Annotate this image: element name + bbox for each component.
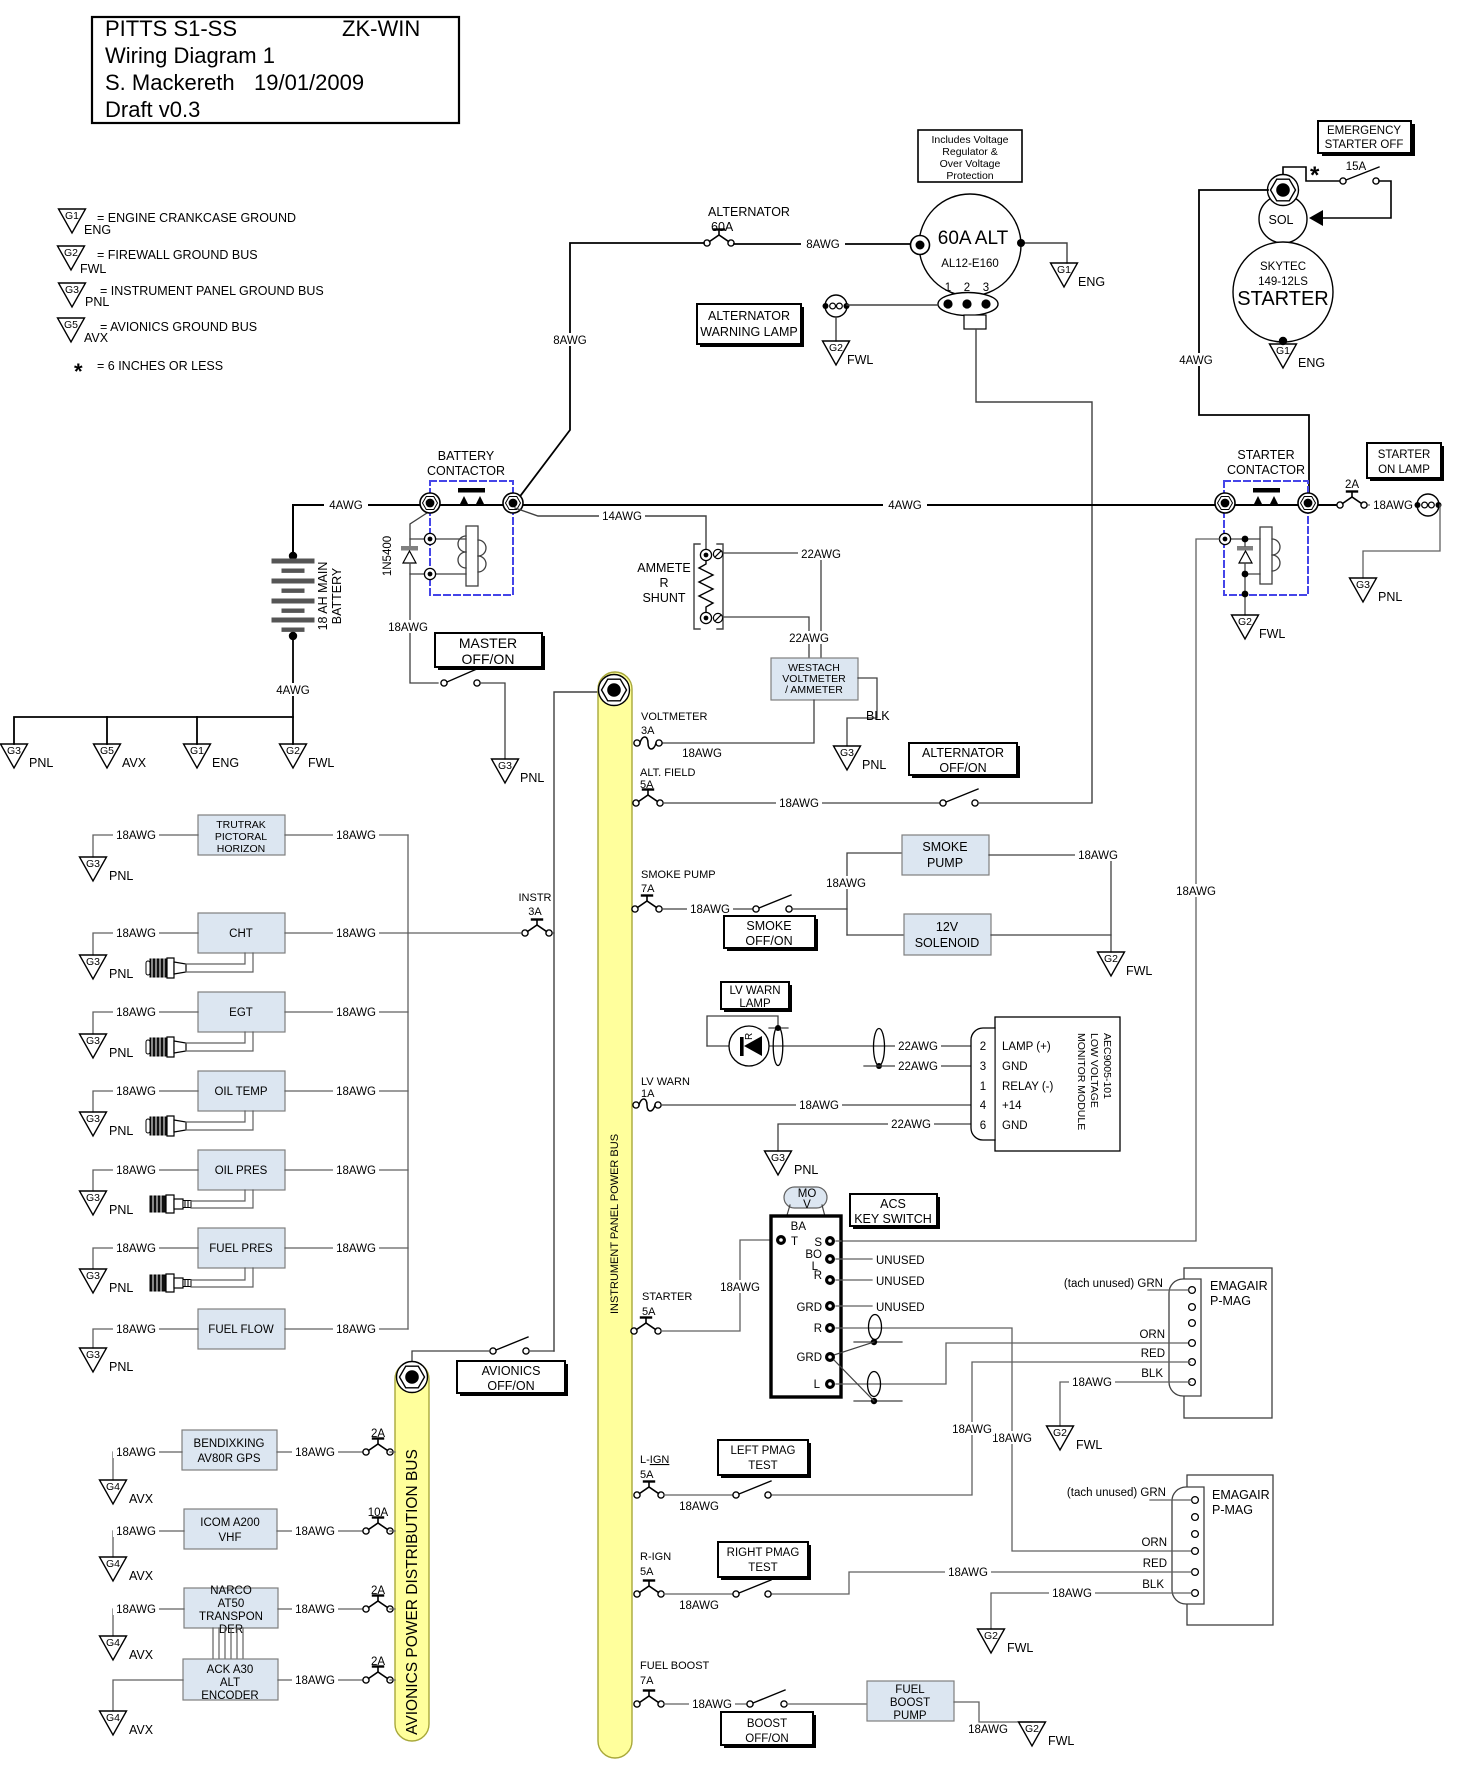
ground G2 FWL fuel boost xyxy=(1019,1722,1075,1748)
wire gps right 18AWG xyxy=(277,1451,366,1453)
EGT box xyxy=(198,992,285,1032)
svg-text:G3: G3 xyxy=(86,1113,100,1125)
svg-text:G4: G4 xyxy=(106,1481,120,1493)
starter motor circle xyxy=(1233,242,1333,342)
legend ground G3 PNL xyxy=(59,283,324,309)
legend ground G1 ENG xyxy=(59,209,297,237)
svg-text:G2: G2 xyxy=(1104,953,1118,965)
battery contactor small terminal 1 xyxy=(424,533,435,544)
svg-text:ALT. FIELD: ALT. FIELD xyxy=(640,767,695,779)
ground G2 FWL left pmag xyxy=(1047,1426,1103,1452)
wire EGT left 18AWG to G3 xyxy=(93,1012,198,1034)
wire fuel flow right 18AWG xyxy=(285,1328,408,1330)
svg-text:1A: 1A xyxy=(641,1088,655,1100)
svg-text:RELAY (-): RELAY (-) xyxy=(1002,1081,1054,1093)
svg-text:3A: 3A xyxy=(528,906,542,918)
svg-text:FWL: FWL xyxy=(1126,964,1152,978)
svg-text:AVX: AVX xyxy=(129,1648,154,1662)
wire diode to master switch 18AWG xyxy=(410,563,438,683)
svg-text:L-IGN: L-IGN xyxy=(640,1454,669,1466)
svg-text:(tach unused) GRN: (tach unused) GRN xyxy=(1067,1487,1166,1499)
wire lamp loop xyxy=(707,1016,778,1046)
CHT thermocouple sensor xyxy=(146,958,186,978)
svg-text:PICTORAL: PICTORAL xyxy=(215,831,267,843)
EGT thermocouple sensor xyxy=(146,1037,186,1057)
ground G4 AVX gps xyxy=(100,1480,154,1506)
wire oil pres right 18AWG xyxy=(285,1169,408,1171)
svg-text:2: 2 xyxy=(964,282,970,294)
svg-text:ZK-WIN: ZK-WIN xyxy=(342,16,420,41)
svg-text:Wiring Diagram 1: Wiring Diagram 1 xyxy=(105,43,275,68)
svg-text:G2: G2 xyxy=(1025,1723,1039,1735)
ground G3 PNL egt xyxy=(80,1034,134,1060)
ground G5 AVX battery xyxy=(94,744,147,770)
svg-text:G3: G3 xyxy=(86,956,100,968)
svg-text:FWL: FWL xyxy=(1076,1438,1102,1452)
svg-text:4: 4 xyxy=(980,1100,987,1112)
svg-text:TEST: TEST xyxy=(748,1562,777,1574)
wire right pmag BLK to G2 xyxy=(991,1593,1191,1629)
wire narco left 18AWG to G4 xyxy=(113,1609,184,1636)
acs terminal L ignition xyxy=(825,1379,835,1389)
svg-text:18AWG: 18AWG xyxy=(336,1165,376,1177)
starter contactor contact bar xyxy=(1253,488,1280,493)
svg-text:G3: G3 xyxy=(86,1270,100,1282)
acs terminal BAT xyxy=(776,1235,786,1245)
fuel pres box xyxy=(198,1228,285,1268)
switch SW right pmag test xyxy=(733,1580,771,1597)
switch SW emergency starter 15A xyxy=(1340,167,1379,184)
svg-text:LEFT PMAG: LEFT PMAG xyxy=(731,1445,796,1457)
svg-text:18AWG: 18AWG xyxy=(116,830,156,842)
twisted pair ellipse L xyxy=(868,1372,881,1397)
wire vhf left 18AWG to G4 xyxy=(113,1531,184,1557)
ground G1 ENG starter xyxy=(1270,344,1326,370)
svg-text:INSTR: INSTR xyxy=(519,892,552,904)
svg-text:OFF/ON: OFF/ON xyxy=(462,651,515,667)
ammeter shunt body xyxy=(694,544,723,629)
ground G1 ENG alternator xyxy=(1051,263,1106,289)
wire narco right 18AWG xyxy=(278,1608,366,1610)
oil temp box xyxy=(198,1071,285,1111)
svg-text:Includes Voltage: Includes Voltage xyxy=(931,134,1008,146)
ground G3 PNL oil temp xyxy=(80,1112,134,1138)
wire starter lamp to G3 xyxy=(1363,505,1440,578)
ground G3 PNL fuel pres xyxy=(80,1269,134,1295)
svg-text:R: R xyxy=(744,1033,755,1040)
svg-text:STARTER: STARTER xyxy=(1237,288,1329,310)
svg-text:AL12-E160: AL12-E160 xyxy=(941,258,999,270)
svg-text:ALTERNATOR: ALTERNATOR xyxy=(708,205,790,219)
oil temp sensor xyxy=(146,1116,186,1136)
wire 22AWG shunt bottom to westach xyxy=(723,617,809,658)
svg-text:STARTER: STARTER xyxy=(1378,449,1431,461)
svg-text:G1: G1 xyxy=(190,745,204,757)
wire alt field to switch 18AWG xyxy=(663,802,940,804)
ground G4 AVX encoder xyxy=(100,1711,154,1737)
svg-text:TRUTRAK: TRUTRAK xyxy=(216,819,266,831)
svg-text:18AWG: 18AWG xyxy=(336,1324,376,1336)
svg-text:= INSTRUMENT PANEL GROUND BUS: = INSTRUMENT PANEL GROUND BUS xyxy=(100,284,324,298)
svg-text:HORIZON: HORIZON xyxy=(217,843,265,855)
ground G3 PNL starter lamp xyxy=(1350,578,1403,604)
svg-text:PNL: PNL xyxy=(109,1046,133,1060)
svg-text:CONTACTOR: CONTACTOR xyxy=(427,464,505,478)
svg-text:MONITOR MODULE: MONITOR MODULE xyxy=(1075,1033,1087,1130)
svg-text:PNL: PNL xyxy=(1378,590,1402,604)
wire starter contactor small terminal to coil xyxy=(1231,538,1260,540)
avionics power distribution bus xyxy=(395,1362,429,1741)
svg-text:FWL: FWL xyxy=(1007,1641,1033,1655)
acs terminal R ignition xyxy=(825,1323,835,1333)
wire starter breaker to ACS BAT xyxy=(661,1240,775,1331)
wire R-IGN to right pmag RED xyxy=(771,1572,1191,1594)
svg-text:18AWG: 18AWG xyxy=(992,1433,1032,1445)
svg-text:*: * xyxy=(74,359,83,384)
svg-text:22AWG: 22AWG xyxy=(898,1061,938,1073)
wire vhf right 18AWG xyxy=(277,1530,366,1532)
svg-text:S: S xyxy=(814,1237,822,1249)
svg-text:FUEL BOOST: FUEL BOOST xyxy=(640,1660,710,1672)
wire emergency switch to sol terminal xyxy=(1322,181,1391,218)
boost off/on label box xyxy=(721,1712,816,1748)
svg-text:18AWG: 18AWG xyxy=(1373,500,1413,512)
svg-text:G3: G3 xyxy=(65,284,79,296)
svg-text:G4: G4 xyxy=(106,1637,120,1649)
svg-text:18 AH MAIN: 18 AH MAIN xyxy=(316,562,330,631)
svg-text:ACS: ACS xyxy=(880,1197,906,1211)
svg-text:18AWG: 18AWG xyxy=(116,1324,156,1336)
battery contactor contact bar xyxy=(458,488,485,493)
svg-text:18AWG: 18AWG xyxy=(1176,886,1216,898)
wire 22AWG module pin6 to G3 xyxy=(778,1124,971,1151)
svg-text:= AVIONICS GROUND BUS: = AVIONICS GROUND BUS xyxy=(100,320,257,334)
switch SW avionics master xyxy=(490,1337,529,1354)
fuel pressure sender xyxy=(150,1274,191,1292)
starter contactor dashed box xyxy=(1224,481,1308,595)
svg-text:4AWG: 4AWG xyxy=(888,500,921,512)
starter on lamp label box xyxy=(1367,443,1444,481)
wire 4AWG main battery line xyxy=(293,504,1336,506)
svg-text:7A: 7A xyxy=(641,883,655,895)
wire small terminal 2 to coil xyxy=(410,573,466,575)
starter contactor left terminal xyxy=(1215,493,1235,513)
svg-text:PUMP: PUMP xyxy=(927,856,963,870)
shunt resistor zigzag xyxy=(699,560,713,612)
wire smoke breaker to switch 18AWG xyxy=(662,908,753,910)
svg-text:= FIREWALL GROUND BUS: = FIREWALL GROUND BUS xyxy=(97,248,258,262)
wire lamp to G2 ground xyxy=(835,317,837,341)
svg-text:60A ALT: 60A ALT xyxy=(938,228,1009,249)
svg-text:PNL: PNL xyxy=(109,1281,133,1295)
svg-text:18AWG: 18AWG xyxy=(116,1007,156,1019)
twisted pair ellipse lv warn xyxy=(874,1029,885,1066)
svg-text:14AWG: 14AWG xyxy=(602,511,642,523)
wire 8AWG alternator feed to battery contactor xyxy=(515,243,704,503)
svg-text:FWL: FWL xyxy=(308,756,334,770)
svg-text:PNL: PNL xyxy=(109,1360,133,1374)
svg-text:Protection: Protection xyxy=(946,170,993,182)
svg-text:18AWG: 18AWG xyxy=(295,1447,335,1459)
svg-text:3: 3 xyxy=(983,282,989,294)
svg-text:GRD: GRD xyxy=(796,1302,822,1314)
ground G2 FWL smoke xyxy=(1098,952,1153,978)
svg-text:S. Mackereth: S. Mackereth xyxy=(105,70,235,95)
narco transponder box xyxy=(184,1588,278,1628)
wire 22AWG lamp to module pin2 xyxy=(707,1045,971,1047)
svg-text:BOOST: BOOST xyxy=(747,1718,787,1730)
svg-text:FWL: FWL xyxy=(847,353,873,367)
svg-text:Over Voltage: Over Voltage xyxy=(940,158,1001,170)
ground G3 PNL fuel flow xyxy=(80,1348,134,1374)
starter contactor small terminal xyxy=(1219,533,1230,544)
svg-text:18AWG: 18AWG xyxy=(690,904,730,916)
ground G3 PNL battery xyxy=(1,744,54,770)
sol hex terminal xyxy=(1268,175,1299,206)
switch SW left pmag test xyxy=(733,1481,771,1498)
master off/on label box xyxy=(435,633,545,670)
svg-text:BA: BA xyxy=(791,1221,807,1233)
wire starter contactor to ACS S 18AWG xyxy=(836,539,1219,1241)
svg-text:PNL: PNL xyxy=(109,1203,133,1217)
wire oil pres left 18AWG to G3 xyxy=(93,1170,198,1191)
svg-text:SMOKE PUMP: SMOKE PUMP xyxy=(641,869,716,881)
switch SW master xyxy=(441,668,480,686)
node battery negative xyxy=(289,632,297,640)
svg-text:7A: 7A xyxy=(640,1675,654,1687)
svg-text:PUMP: PUMP xyxy=(893,1710,927,1722)
svg-text:1: 1 xyxy=(980,1081,986,1093)
svg-text:LAMP: LAMP xyxy=(739,998,771,1010)
wire ACS L to left pmag ORN xyxy=(836,1343,1190,1384)
bendixking gps box xyxy=(182,1430,277,1470)
svg-text:AVIONICS POWER DISTRIBUTION BU: AVIONICS POWER DISTRIBUTION BUS xyxy=(404,1449,421,1735)
svg-text:PITTS S1-SS: PITTS S1-SS xyxy=(105,16,237,41)
shunt bottom screw xyxy=(713,613,722,622)
svg-text:NARCO: NARCO xyxy=(210,1585,252,1597)
alternator 3-pin connector xyxy=(938,282,998,316)
svg-text:ON LAMP: ON LAMP xyxy=(1378,464,1430,476)
legend ground G2 FWL xyxy=(58,246,258,276)
svg-text:BLK: BLK xyxy=(1142,1579,1164,1591)
svg-text:AT50: AT50 xyxy=(218,1598,245,1610)
wire lamp to connector xyxy=(847,304,938,306)
12V solenoid box xyxy=(904,914,991,955)
left pmag connector outer box xyxy=(1184,1268,1272,1418)
wire encoder right 18AWG xyxy=(278,1679,366,1681)
svg-text:22AWG: 22AWG xyxy=(801,549,841,561)
acs key switch label box xyxy=(850,1194,940,1229)
wire contactor left terminal to diode xyxy=(410,511,430,546)
svg-text:3: 3 xyxy=(980,1061,986,1073)
svg-text:19/01/2009: 19/01/2009 xyxy=(254,70,364,95)
svg-text:18AWG: 18AWG xyxy=(336,830,376,842)
svg-text:1N5400: 1N5400 xyxy=(382,536,394,576)
svg-text:AVIONICS: AVIONICS xyxy=(482,1364,541,1378)
alternator B terminal xyxy=(911,236,930,255)
wire sol hex to emergency switch xyxy=(1283,167,1340,181)
svg-text:UNUSED: UNUSED xyxy=(876,1255,925,1267)
ground G2 FWL warning lamp xyxy=(823,341,874,367)
wire oil temp right 18AWG xyxy=(285,1090,408,1092)
switch SW smoke xyxy=(753,895,792,912)
svg-text:18AWG: 18AWG xyxy=(116,1447,156,1459)
svg-text:AVX: AVX xyxy=(129,1492,154,1506)
acs unused BO wire xyxy=(836,1258,872,1260)
wire solenoid to ground junction xyxy=(991,934,1111,936)
shunt bottom terminal xyxy=(700,612,711,623)
ground G4 AVX narco xyxy=(100,1636,154,1662)
wire westach BLK to ground xyxy=(847,678,877,746)
svg-text:RED: RED xyxy=(1143,1558,1167,1570)
svg-text:FWL: FWL xyxy=(80,262,106,276)
wire fuel flow left 18AWG to G3 xyxy=(93,1329,198,1348)
LED lv warn lamp xyxy=(729,1026,769,1066)
fuel boost pump box xyxy=(867,1681,954,1722)
svg-text:G2: G2 xyxy=(64,247,78,259)
svg-text:BLK: BLK xyxy=(866,709,890,723)
acs terminal BO L xyxy=(825,1254,835,1264)
svg-text:G3: G3 xyxy=(86,1035,100,1047)
svg-text:18AWG: 18AWG xyxy=(720,1282,760,1294)
svg-text:6: 6 xyxy=(980,1120,986,1132)
svg-text:18AWG: 18AWG xyxy=(388,622,428,634)
svg-text:(tach unused) GRN: (tach unused) GRN xyxy=(1064,1278,1163,1290)
svg-text:SHUNT: SHUNT xyxy=(642,591,685,605)
svg-text:8AWG: 8AWG xyxy=(553,335,586,347)
svg-text:FUEL PRES: FUEL PRES xyxy=(209,1243,273,1255)
svg-text:BLK: BLK xyxy=(1141,1368,1163,1380)
starter ground dot xyxy=(1279,337,1287,345)
svg-text:G2: G2 xyxy=(286,745,300,757)
breaker CB1 60A alternator xyxy=(704,230,734,247)
svg-text:ORN: ORN xyxy=(1141,1537,1167,1549)
svg-text:149-12LS: 149-12LS xyxy=(1258,276,1308,288)
svg-text:18AWG: 18AWG xyxy=(116,1604,156,1616)
wire oil temp left 18AWG to G3 xyxy=(93,1091,198,1112)
title block xyxy=(92,16,459,123)
wire panel bus feed from master switch xyxy=(554,692,599,1351)
svg-text:22AWG: 22AWG xyxy=(898,1041,938,1053)
svg-text:CONTACTOR: CONTACTOR xyxy=(1227,463,1305,477)
svg-text:AV80R GPS: AV80R GPS xyxy=(197,1453,260,1465)
wire fuel boost breaker to switch xyxy=(664,1703,747,1705)
starter contactor coil xyxy=(1260,527,1280,584)
svg-text:SKYTEC: SKYTEC xyxy=(1260,261,1306,273)
svg-text:2: 2 xyxy=(980,1041,986,1053)
wire master switch to G3 xyxy=(480,683,505,759)
svg-text:PNL: PNL xyxy=(29,756,53,770)
shield tick R xyxy=(854,1341,902,1343)
acs unused GRD wire xyxy=(836,1305,872,1307)
svg-text:LAMP (+): LAMP (+) xyxy=(1002,1041,1051,1053)
svg-text:18AWG: 18AWG xyxy=(116,1243,156,1255)
svg-text:5A: 5A xyxy=(642,1306,656,1318)
wire instr breaker to bus riser xyxy=(552,932,554,934)
battery contactor dashed box xyxy=(430,481,513,595)
svg-text:18AWG: 18AWG xyxy=(336,1086,376,1098)
svg-text:G2: G2 xyxy=(1053,1427,1067,1439)
panel bus hex terminal xyxy=(599,675,630,706)
svg-text:PNL: PNL xyxy=(862,758,886,772)
ground G3 PNL westach xyxy=(834,746,887,772)
wire L-IGN to left pmag RED xyxy=(771,1362,1190,1495)
right pmag pins xyxy=(1192,1497,1199,1504)
svg-text:G1: G1 xyxy=(1276,345,1290,357)
svg-text:*: * xyxy=(1310,162,1320,189)
ground G4 AVX vhf xyxy=(100,1557,154,1583)
wire 22AWG gnd to module pin3 xyxy=(864,1065,971,1067)
ground G2 FWL right pmag xyxy=(978,1629,1034,1655)
svg-text:OIL TEMP: OIL TEMP xyxy=(214,1086,267,1098)
svg-text:Regulator &: Regulator & xyxy=(942,146,997,158)
ground G1 ENG battery xyxy=(184,744,240,770)
right pmag test label box xyxy=(718,1542,811,1580)
svg-text:INSTRUMENT PANEL POWER BUS: INSTRUMENT PANEL POWER BUS xyxy=(609,1134,621,1314)
svg-text:EMAGAIR: EMAGAIR xyxy=(1212,1488,1270,1502)
svg-text:18AWG: 18AWG xyxy=(679,1600,719,1612)
svg-text:ORN: ORN xyxy=(1139,1329,1165,1341)
svg-text:= 6 INCHES OR LESS: = 6 INCHES OR LESS xyxy=(97,359,223,373)
svg-text:PNL: PNL xyxy=(109,869,133,883)
svg-text:GND: GND xyxy=(1002,1120,1028,1132)
diode D1 1N5400 xyxy=(401,546,418,563)
svg-text:ENG: ENG xyxy=(84,223,111,237)
svg-text:12V: 12V xyxy=(936,920,959,934)
wire battery positive xyxy=(292,505,294,556)
svg-text:G3: G3 xyxy=(840,747,854,759)
svg-text:AVX: AVX xyxy=(129,1723,154,1737)
svg-text:T: T xyxy=(791,1236,798,1248)
svg-text:/ AMMETER: / AMMETER xyxy=(785,684,843,696)
instrument trunk wire xyxy=(407,835,409,1329)
svg-text:SMOKE: SMOKE xyxy=(922,840,967,854)
svg-text:22AWG: 22AWG xyxy=(789,633,829,645)
trutrak pictoral horizon box xyxy=(198,815,285,855)
svg-text:P-MAG: P-MAG xyxy=(1210,1294,1251,1308)
legend ground G5 AVX xyxy=(58,318,258,345)
low voltage monitor module box xyxy=(971,1017,1120,1151)
alternator off/on label box xyxy=(909,743,1020,778)
wire alternator field from connector xyxy=(976,329,1092,802)
ground G2 FWL battery xyxy=(280,744,335,770)
svg-text:8AWG: 8AWG xyxy=(806,239,839,251)
alternator warning lamp L1 xyxy=(823,295,850,317)
svg-text:4AWG: 4AWG xyxy=(276,685,309,697)
svg-text:BENDIXKING: BENDIXKING xyxy=(194,1438,265,1450)
wire 18AWG lv warn fuse to module pin4 xyxy=(661,1104,971,1106)
svg-text:AVX: AVX xyxy=(122,756,147,770)
svg-text:G3: G3 xyxy=(7,745,21,757)
wire gps left 18AWG to G4 xyxy=(113,1452,182,1480)
svg-text:VHF: VHF xyxy=(219,1532,242,1544)
svg-text:L: L xyxy=(814,1379,821,1391)
svg-text:BATTERY: BATTERY xyxy=(330,567,344,624)
svg-text:+14: +14 xyxy=(1002,1100,1022,1112)
svg-text:18AWG: 18AWG xyxy=(679,1501,719,1513)
battery 18AH plates xyxy=(272,559,314,631)
svg-text:18AWG: 18AWG xyxy=(116,1086,156,1098)
svg-text:3A: 3A xyxy=(641,725,655,737)
wire trutrak right 18AWG xyxy=(285,834,408,836)
svg-text:5A: 5A xyxy=(640,1469,654,1481)
svg-text:18AWG: 18AWG xyxy=(336,1007,376,1019)
wire smoke switch to pump and solenoid xyxy=(792,908,847,910)
ack encoder box xyxy=(183,1659,278,1702)
svg-text:Draft v0.3: Draft v0.3 xyxy=(105,97,200,122)
left pmag pins xyxy=(1189,1287,1196,1294)
svg-text:FWL: FWL xyxy=(1048,1734,1074,1748)
